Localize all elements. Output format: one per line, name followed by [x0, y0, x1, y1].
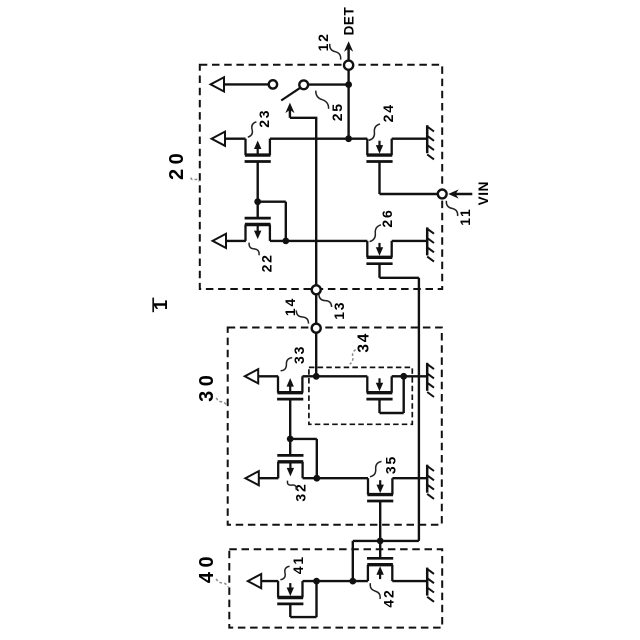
- bias rail (vertical): [418, 278, 420, 541]
- leader squiggle 42: [370, 583, 380, 599]
- junction: transistor 42 drain tie: [349, 578, 356, 585]
- svg-text:25: 25: [329, 102, 345, 121]
- wire: triangle to transistor 33 source: [258, 375, 278, 377]
- transistor 42 gate lead: [379, 541, 381, 559]
- block 20 dashed boundary: [200, 65, 442, 289]
- ground (transistor 26 source): [426, 227, 429, 255]
- svg-text:30: 30: [196, 371, 218, 402]
- switch 25 blade (open): [281, 88, 300, 101]
- leader squiggle 14: [296, 310, 308, 323]
- svg-text:14: 14: [282, 297, 298, 316]
- power supply triangle (transistor 22): [213, 234, 226, 248]
- VIN input arrow: [454, 193, 473, 195]
- wire: triangle to transistor 41 source: [261, 580, 279, 582]
- switch 25 left terminal: [269, 80, 277, 88]
- DET output arrow: [347, 46, 349, 61]
- transistor 35 gate lead: [379, 502, 381, 541]
- wire: transistor 41 drain along row: [303, 580, 368, 582]
- wire: transistor 33 drain to mid-rail junction: [302, 375, 316, 377]
- transistor 42 (NMOS, mirrored): [367, 565, 369, 581]
- svg-text:42: 42: [381, 588, 397, 607]
- wire: triangle to transistor 23 source: [225, 137, 246, 139]
- wire: gate junction to transistor 32 drain: [290, 438, 317, 440]
- leader squiggle 41: [280, 566, 289, 580]
- node 12 terminal circle: [344, 61, 353, 70]
- wire: transistor 32 drain to transistor 35 drain: [303, 477, 368, 479]
- transistor 34 gate loop (diode connection): [378, 400, 380, 413]
- wire: node 14 down to T33 drain junction: [315, 333, 317, 377]
- svg-text:24: 24: [380, 103, 396, 122]
- block 34 dashed boundary: [309, 367, 412, 424]
- junction: gates of 23/22: [254, 198, 261, 205]
- wire: transistor 42 source to ground: [392, 580, 426, 582]
- svg-text:VIN: VIN: [476, 181, 491, 205]
- leader squiggle 24: [369, 124, 380, 140]
- svg-text:34: 34: [356, 332, 373, 353]
- transistor 33 (PMOS): [277, 376, 279, 392]
- power supply triangle (transistor 33): [245, 369, 258, 383]
- wire: node 12 down to drain row (output rail): [347, 70, 349, 139]
- transistor 22 gate lead: [257, 202, 259, 220]
- wire: transistor 26 source to ground: [392, 240, 427, 242]
- svg-text:33: 33: [291, 345, 307, 364]
- svg-text:11: 11: [457, 207, 473, 225]
- junction: output rail at drain row: [345, 135, 352, 142]
- node 11 terminal circle (VIN): [438, 190, 447, 199]
- ground (transistor 42 source): [426, 568, 429, 596]
- svg-text:23: 23: [256, 109, 272, 128]
- wire: transistor 34 drain-gate junction: [392, 375, 404, 377]
- transistor 24 gate lead to node 11: [378, 162, 380, 195]
- ground (transistor 34 source): [426, 363, 429, 391]
- svg-text:35: 35: [382, 455, 398, 474]
- output rail line from switch jog to node 13: [315, 118, 317, 286]
- wire: gate junction to transistor 22 drain: [258, 200, 286, 202]
- transistor 32 (PMOS, diode style): [277, 462, 279, 478]
- wire: junction into block 34 to transistor 34: [316, 375, 367, 377]
- ground (transistor 35 source): [426, 465, 429, 493]
- leader squiggle 35: [370, 461, 382, 476]
- ground (transistor 24 source): [426, 125, 429, 153]
- svg-text:26: 26: [379, 208, 395, 227]
- svg-text:41: 41: [290, 555, 306, 574]
- node 13 terminal circle: [312, 285, 321, 294]
- transistor 33 gate lead: [289, 400, 291, 439]
- transistor 26 (NMOS): [366, 241, 368, 257]
- wire: junction to transistor 24: [349, 137, 368, 139]
- leader squiggle 26: [370, 225, 381, 242]
- wire: switch right terminal to output rail: [308, 83, 349, 85]
- svg-text:22: 22: [259, 253, 275, 272]
- transistor 26 gate lead to bias rail: [378, 263, 380, 278]
- wire: transistor 24 source to ground: [392, 137, 427, 139]
- power supply triangle (switch 25 row): [211, 77, 224, 91]
- leader curl 34: [350, 350, 356, 365]
- wire: junction to ground (crosses bias rail): [404, 375, 427, 377]
- node 14 terminal circle: [312, 324, 321, 333]
- leader squiggle 23: [248, 122, 257, 137]
- transistor 23 (PMOS): [244, 139, 246, 155]
- switch 25 right terminal: [299, 80, 308, 89]
- junction: bias node (gates 35/42): [377, 538, 384, 545]
- leader squiggle 25: [316, 91, 329, 109]
- junction: gates of 33/32: [287, 436, 294, 443]
- junction: mid rail / T33 / T34: [313, 373, 320, 380]
- junction on transistor 32 drain wire: [313, 475, 320, 482]
- svg-text:13: 13: [331, 301, 347, 320]
- transistor 24 (NMOS): [366, 139, 368, 155]
- wire: bias node to transistor 42 drain: [353, 540, 380, 542]
- power supply triangle (transistor 32): [245, 471, 258, 485]
- leader squiggle 22: [249, 243, 259, 256]
- leader squiggle 12: [330, 44, 341, 60]
- transistor 22 (PMOS, diode style): [244, 225, 246, 241]
- wire: transistor 35 source to ground (crosses bias rail): [392, 477, 426, 479]
- leader curl 40: [216, 579, 228, 587]
- wire: transistor 23 drain to output rail junction: [270, 137, 349, 139]
- leader squiggle 33: [281, 358, 293, 371]
- junction at switch/output rail: [345, 81, 352, 88]
- block 40 dashed boundary: [229, 549, 442, 627]
- wire: node 13 to node 14: [315, 294, 317, 324]
- transistor 32 gate lead: [289, 439, 291, 456]
- power supply triangle (transistor 23): [212, 132, 225, 146]
- leader squiggle 13: [319, 294, 332, 307]
- svg-text:DET: DET: [341, 6, 356, 35]
- leader squiggle 32: [287, 481, 296, 490]
- transistor 34 (NMOS): [366, 376, 368, 392]
- junction on transistor 22 drain wire: [282, 238, 289, 245]
- wire: triangle to transistor 22 source: [226, 240, 246, 242]
- transistor 41 (NMOS, diode connected): [277, 581, 279, 597]
- transistor 35 (NMOS): [367, 478, 369, 494]
- leader curl 20: [191, 178, 199, 182]
- wire: bias rail corner to bias node: [380, 540, 419, 542]
- svg-text:20: 20: [166, 149, 188, 180]
- transistor 41 gate loop (diode connection): [289, 603, 291, 618]
- junction: transistor 41 gate tie: [313, 578, 320, 585]
- power supply triangle (transistor 41): [248, 574, 261, 588]
- svg-text:40: 40: [196, 552, 218, 583]
- switch 25 control arrowhead: [285, 103, 294, 114]
- wire: triangle to transistor 32 source: [258, 477, 278, 479]
- svg-text:12: 12: [315, 32, 331, 51]
- wire: transistor 22 drain to transistor 26 drain: [270, 240, 367, 242]
- leader squiggle 11: [446, 201, 457, 216]
- block 30 dashed boundary: [228, 328, 442, 525]
- transistor 23 gate lead: [257, 162, 259, 202]
- switch 25 control wire: [289, 110, 291, 118]
- wire: triangle to switch left terminal: [224, 83, 269, 85]
- junction: transistor 34 gate tie: [400, 373, 407, 380]
- leader curl 30: [216, 398, 226, 406]
